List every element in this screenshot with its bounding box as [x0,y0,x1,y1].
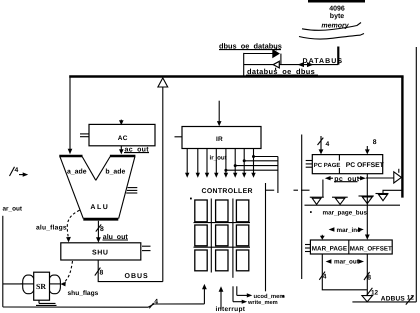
buffer t3 onto mar_page_bus [359,196,374,204]
label write_mem [247,299,278,306]
register SHU [61,243,151,260]
wire ALU out to SHU [96,221,101,243]
label ucod_mem [254,293,285,300]
register PC (PC_PAGE / PC_OFFSET) [306,155,385,174]
label databus_oe_dbus [246,67,318,76]
label OBUS [125,273,149,280]
svg-text:4: 4 [326,141,330,148]
memory M1 4096 byte memory [299,1,365,39]
wire MAR_PAGE out L-path [322,254,367,290]
controller microcode grid [195,200,249,271]
wire shu_flags dashed to SR [60,261,72,286]
node dot left of controller [190,198,192,200]
wire buffers to DBUS [244,53,281,76]
svg-text:4: 4 [15,167,19,174]
label 4 with arrow (ar bus stub, upper left) [10,167,29,177]
net DATABUS [303,47,344,66]
wire left rail to SR [3,283,23,285]
svg-text:SR: SR [36,282,46,291]
svg-text:8: 8 [373,139,377,146]
svg-text:MAR_OFFSET: MAR_OFFSET [350,246,392,253]
wire bottom rail to controller [3,304,205,307]
svg-text:ir_out: ir_out [210,154,227,161]
wire left rail vertical [2,216,4,307]
label dbus_oe_databus [219,41,282,50]
svg-text:PC OFFSET: PC OFFSET [346,162,385,169]
buffer pc_out to adbus (tri-state right) [394,169,402,183]
label 4 on bottom rail [149,299,158,309]
label 8 on alu_out wire [96,224,104,232]
wire dashed control to PC section [266,189,310,191]
svg-text:ADBUS: ADBUS [381,296,406,303]
svg-text:byte: byte [330,12,345,20]
node dot stray left of mar area [283,295,285,297]
label 12 on adbus wire [367,288,379,297]
buffer t1 onto mar_page_bus [310,197,324,204]
svg-text:4: 4 [154,299,158,306]
label interrupt [216,306,246,313]
label pc_out with outward arrows [325,176,366,183]
svg-text:mar_inc: mar_inc [337,227,362,234]
node OBUS to DBUS arrow [158,78,168,87]
label mar_out with outward arrows [326,258,364,265]
buffer t2 onto mar_page_bus [332,197,348,204]
wire DBUS to ALU a input [68,77,73,154]
wire pc_out to ADBUS buffer [366,177,394,179]
wires IR branch bundle to right [226,157,278,194]
svg-text:4: 4 [323,274,327,281]
label ar_out [3,206,23,213]
svg-text:interrupt: interrupt [216,306,246,313]
svg-text:AC: AC [118,135,128,142]
svg-text:SHU: SHU [92,250,109,257]
svg-text:shu_flags: shu_flags [68,290,99,297]
label CONTROLLER [202,188,253,195]
svg-text:MAR_PAGE: MAR_PAGE [312,246,347,253]
wire AC to ALU b input [119,146,124,155]
label alu_flags [36,224,67,231]
svg-text:8: 8 [100,226,104,233]
svg-text:ucod_mem: ucod_mem [254,293,285,300]
wire pc_out to MAR_OFFSET input [365,174,370,240]
register AC [80,124,155,145]
label ac_out [124,147,149,154]
svg-text:b_ade: b_ade [105,169,125,176]
svg-text:alu_flags: alu_flags [36,224,67,231]
wire stub into PC_OFFSET with label 8 [365,139,377,154]
net ADBUS [352,47,416,302]
wire controller to ucod vertical [265,183,267,291]
controller grid separator lines [194,199,251,278]
wire control vertical at PC section left [301,135,303,280]
buffer mar onto ADBUS (down) [362,296,373,302]
label mar_inc with outward arrows [329,227,364,234]
svg-text:PC PAGE: PC PAGE [314,162,341,169]
svg-text:8: 8 [100,270,104,277]
wires IR outputs to controller [185,149,256,178]
svg-text:mar_page_bus: mar_page_bus [323,209,368,216]
svg-text:12: 12 [407,295,415,302]
wire stub into MAR_PAGE [320,235,325,240]
wire alu_flags dashed to SHU [66,210,79,242]
label shu_flags [68,290,99,297]
net mar_page_bus [305,204,401,206]
label ADBUS 12 [381,295,415,305]
buffer dbus_oe_databus (tri-state right) [273,47,279,57]
junction dots on IR output wires [224,155,255,172]
svg-text:ar_out: ar_out [3,206,23,213]
wire SHU out to OBUS [98,260,163,282]
label 4 on mar_page out wire [319,272,326,281]
label 8 on mar_offset out wire [364,272,371,281]
svg-text:CONTROLLER: CONTROLLER [202,188,253,195]
wire databus horizontal with bidirectional arrows [280,62,339,67]
wire pc_out down to buffer t1 [322,180,324,198]
bus DBUS (thick top line and right drop) [69,77,403,198]
svg-text:mar_out: mar_out [334,258,360,265]
svg-text:IR: IR [216,136,223,143]
svg-text:ALU: ALU [90,204,109,211]
svg-text:OBUS: OBUS [125,273,149,280]
alu ALU [59,156,137,219]
wire input arrow into AC [119,120,124,126]
wire input into IR [217,101,222,127]
svg-text:write_mem: write_mem [247,299,278,306]
label alu_out [103,233,129,241]
bus OBUS vertical [162,87,164,282]
wire MAR_OFFSET out down [366,254,368,295]
label mar_page_bus [323,209,368,216]
wire stub into PC_PAGE with label 4 [318,136,330,154]
ucod bracket wires [233,286,252,304]
node dot on mar_page_bus [310,211,312,213]
buffer databus_oe_dbus (tri-state left) [273,61,279,70]
wire arrow up into controller [202,284,207,304]
svg-text:4096: 4096 [329,6,345,13]
svg-text:a_ade: a_ade [67,169,87,176]
register IR [175,127,262,149]
label ir_out [210,154,227,161]
register MAR (MAR_PAGE / MAR_OFFSET) [305,240,392,254]
status register SR [21,272,61,305]
wire DBUS down to buffer t4 [383,190,402,193]
wire interrupt arrow up [219,286,224,309]
label 8 on shu out wire [95,268,104,277]
svg-text:8: 8 [367,274,371,281]
buffer t4 onto mar_page_bus [376,194,389,201]
